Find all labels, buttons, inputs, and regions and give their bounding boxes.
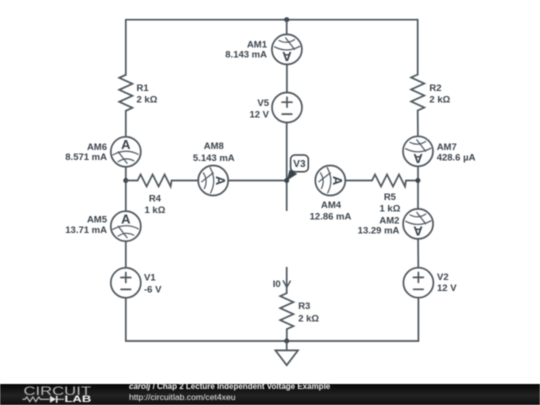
- svg-text:R1: R1: [137, 83, 150, 94]
- svg-text:V3: V3: [293, 159, 306, 170]
- svg-text:13.71 mA: 13.71 mA: [65, 225, 107, 236]
- CircuitLab logo: [0, 384, 110, 405]
- resistor R3 labels: [298, 301, 319, 324]
- wire center branch upper with I0: [286, 268, 288, 294]
- ammeter AM4 labels: [310, 200, 352, 222]
- voltage source V1: [111, 268, 141, 298]
- wire R3 to bottom rail: [286, 329, 288, 341]
- resistor R4 labels: [144, 194, 165, 217]
- current arrow I0: [283, 281, 290, 287]
- ammeter AM4: [315, 166, 345, 196]
- svg-text:R5: R5: [384, 192, 397, 203]
- svg-text:V2: V2: [437, 272, 449, 283]
- node ground junction: [284, 339, 289, 344]
- svg-text:AM5: AM5: [87, 214, 108, 225]
- svg-text:R4: R4: [149, 194, 162, 205]
- ammeter AM2: [403, 209, 433, 239]
- wire R4 lead left: [126, 180, 138, 182]
- wire R5 to right junction: [406, 180, 418, 182]
- ammeter AM5 labels: [65, 214, 107, 236]
- wire top rail: [126, 19, 418, 21]
- voltage source V5: [272, 93, 302, 123]
- svg-text:12 V: 12 V: [437, 283, 457, 294]
- svg-text:V1: V1: [144, 273, 156, 284]
- svg-text:AM7: AM7: [437, 142, 457, 153]
- node left junction: [123, 178, 128, 183]
- svg-text:428.6 µA: 428.6 µA: [437, 152, 476, 163]
- ammeter AM8 labels: [193, 141, 235, 164]
- wire AM7 to AM2: [417, 166, 419, 209]
- resistor R5 labels: [379, 192, 400, 214]
- svg-text:LAB: LAB: [65, 394, 92, 404]
- voltage source V2: [403, 268, 433, 298]
- ammeter AM8: [198, 166, 228, 196]
- svg-text:2 kΩ: 2 kΩ: [298, 313, 319, 324]
- node V3 flag box: [291, 155, 309, 172]
- svg-text:R2: R2: [429, 83, 441, 94]
- svg-text:8.571 mA: 8.571 mA: [65, 152, 107, 163]
- wire AM5 to V1: [125, 241, 127, 268]
- svg-text:5.143 mA: 5.143 mA: [193, 153, 235, 164]
- svg-text:AM4: AM4: [321, 200, 342, 211]
- svg-text:I0: I0: [273, 279, 281, 290]
- svg-text:1 kΩ: 1 kΩ: [379, 203, 400, 214]
- footer bar: [0, 384, 540, 405]
- resistor R2 labels: [429, 83, 450, 106]
- wire AM8 to center node: [228, 180, 287, 182]
- ammeter AM2 labels: [358, 215, 400, 236]
- ammeter AM6: [111, 137, 141, 167]
- ammeter AM7 labels: [437, 142, 476, 164]
- svg-text:2 kΩ: 2 kΩ: [429, 94, 450, 105]
- resistor R3: [280, 293, 293, 329]
- wire R4 to AM8: [172, 180, 199, 182]
- wire V5 to center node: [286, 123, 288, 181]
- voltage source V2 labels: [437, 272, 457, 294]
- wire AM2 to V2: [417, 239, 419, 268]
- wire right rail lower: [417, 298, 419, 341]
- wire left rail upper: [125, 20, 127, 75]
- wire R2 to AM7: [417, 111, 419, 137]
- ammeter AM6 labels: [65, 142, 107, 163]
- svg-text:1 kΩ: 1 kΩ: [144, 205, 165, 216]
- wire bottom rail: [126, 340, 419, 342]
- voltage source V1 labels: [144, 273, 162, 296]
- resistor R4: [138, 175, 172, 187]
- wire right rail upper: [417, 20, 419, 75]
- wire AM1 to V5: [286, 64, 288, 92]
- ground: [275, 341, 298, 365]
- voltage source V5 labels: [249, 98, 269, 120]
- wire left rail lower: [125, 298, 127, 341]
- ammeter AM1 labels: [225, 40, 267, 61]
- svg-text:2 kΩ: 2 kΩ: [137, 94, 158, 105]
- svg-text:13.29 mA: 13.29 mA: [358, 225, 400, 236]
- svg-text:12 V: 12 V: [249, 109, 269, 120]
- ammeter AM5: [111, 211, 141, 241]
- wire stub below center node: [286, 181, 288, 211]
- wire AM6 to AM5: [125, 167, 127, 212]
- wire AM4 to R5: [345, 180, 372, 182]
- resistor R2: [411, 75, 424, 111]
- svg-text:12.86 mA: 12.86 mA: [310, 211, 352, 222]
- ammeter AM7: [403, 136, 433, 166]
- resistor R1: [119, 75, 132, 111]
- svg-text:-6 V: -6 V: [144, 285, 162, 296]
- resistor R5: [372, 175, 406, 187]
- ammeter AM1: [272, 34, 302, 64]
- svg-text:R3: R3: [298, 301, 310, 312]
- node right junction: [415, 178, 420, 183]
- svg-text:V5: V5: [257, 98, 269, 109]
- resistor R1 labels: [137, 83, 158, 105]
- node center junction: [284, 178, 289, 183]
- svg-text:8.143 mA: 8.143 mA: [225, 50, 267, 61]
- wire AM1 stub top: [286, 20, 288, 35]
- wire R1 to AM6: [125, 111, 127, 137]
- node V3 flag pointer: [287, 170, 298, 181]
- node top junction: [284, 17, 289, 22]
- svg-text:AM8: AM8: [204, 141, 224, 152]
